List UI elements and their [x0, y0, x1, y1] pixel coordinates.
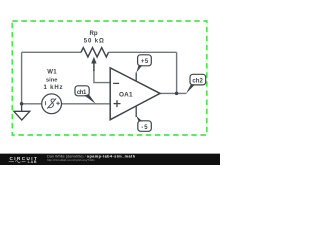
- svg-text:sine: sine: [46, 77, 57, 83]
- svg-text:ch2: ch2: [192, 78, 203, 84]
- svg-text:Rp: Rp: [90, 31, 98, 37]
- svg-text:1 kHz: 1 kHz: [44, 85, 63, 91]
- svg-text:-5: -5: [141, 125, 148, 131]
- svg-text:http://circuitlab.com/c/prkbuz: http://circuitlab.com/c/prkbuzq/7dkfs: [47, 158, 95, 162]
- svg-text:OA1: OA1: [119, 92, 133, 99]
- svg-text:+5: +5: [141, 59, 149, 65]
- svg-text:W1: W1: [47, 70, 57, 76]
- svg-text:50 kΩ: 50 kΩ: [84, 38, 104, 44]
- svg-text:ch1: ch1: [77, 90, 87, 96]
- svg-text:LAB: LAB: [28, 160, 37, 164]
